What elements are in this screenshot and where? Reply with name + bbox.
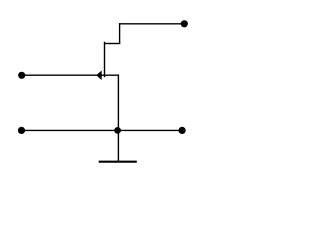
node: bottom-left terminal [18, 127, 25, 134]
transistor Q1: gate arrowhead (pointing left) [97, 71, 102, 79]
transistor Q1: vertical channel bar [104, 42, 106, 77]
wire: short horizontal into transistor bar [105, 43, 121, 45]
node: left terminal [18, 72, 25, 79]
wire: top horizontal (collector to top-right terminal) [120, 23, 185, 25]
node: bottom-right terminal [179, 127, 186, 134]
wire: vertical drop from top wire [119, 23, 121, 43]
wire: base/gate horizontal from left terminal through arrow and bar [22, 74, 119, 76]
junction: emitter to bottom rail [114, 127, 121, 134]
node: top-right terminal [181, 20, 188, 27]
wire: emitter vertical down to ground [117, 75, 119, 162]
ground [99, 161, 137, 163]
wire: bottom rail horizontal [22, 129, 183, 131]
